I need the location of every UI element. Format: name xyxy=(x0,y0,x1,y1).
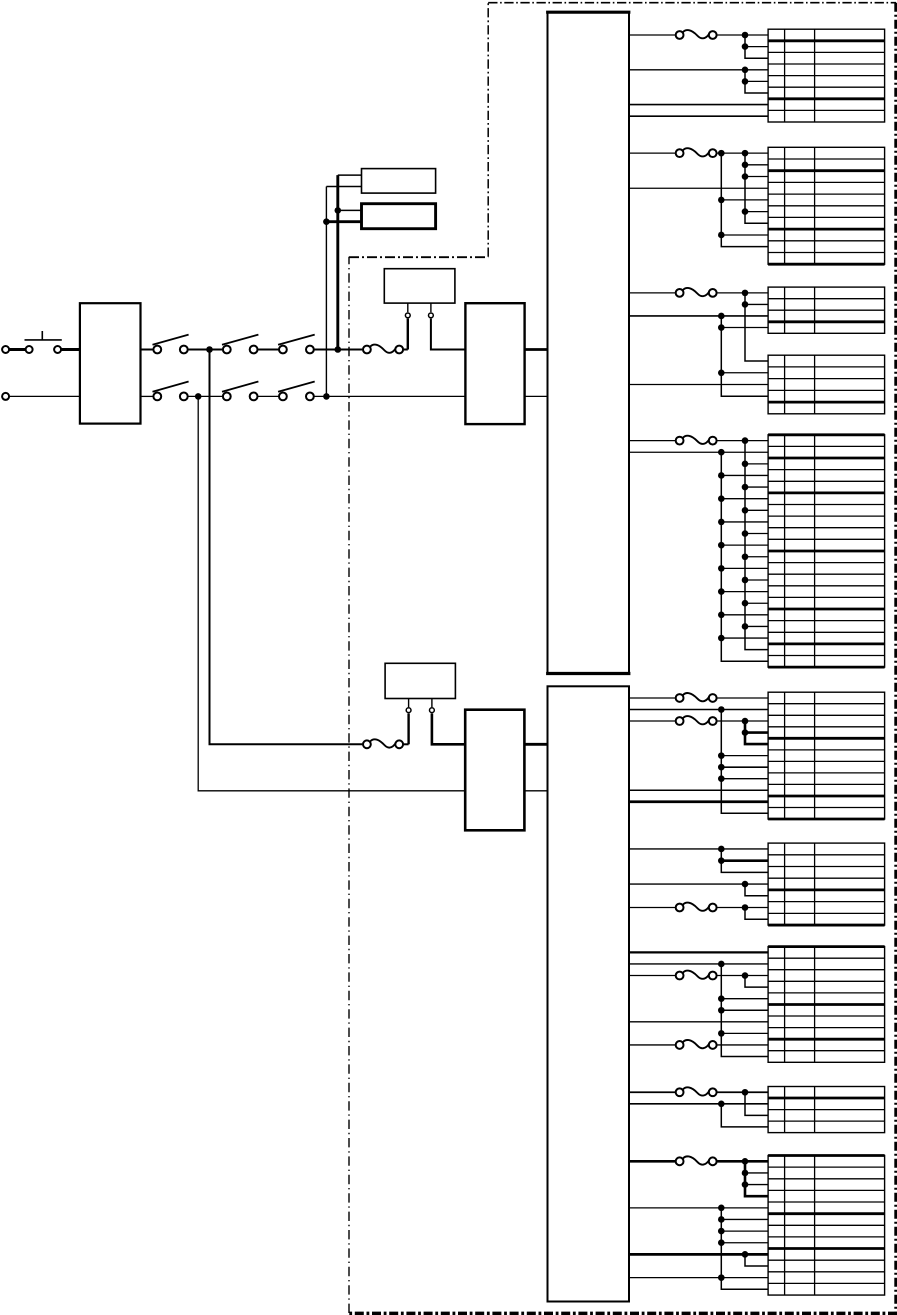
wire xyxy=(721,327,768,329)
contact Q3.1 xyxy=(222,335,258,354)
wire rail xyxy=(745,441,768,650)
wire xyxy=(745,556,768,558)
junction xyxy=(742,78,749,85)
breaker K2 pin 2 xyxy=(430,708,435,713)
node L1a xyxy=(206,346,213,353)
wire rail xyxy=(745,153,768,223)
wire G1 out - xyxy=(525,395,548,397)
junction xyxy=(742,162,749,169)
main switch Q1 xyxy=(80,303,141,423)
wire xyxy=(721,474,768,476)
terminal L in xyxy=(2,346,9,353)
junction xyxy=(742,150,749,157)
wire xyxy=(721,1032,768,1034)
wire xyxy=(721,859,768,862)
contact Q3.2 xyxy=(222,382,258,401)
wire xyxy=(745,1184,768,1186)
node N1b xyxy=(323,393,330,400)
wire xyxy=(407,303,409,312)
junction xyxy=(718,449,725,456)
junction xyxy=(718,1228,725,1235)
wire xyxy=(721,1218,768,1220)
wire rail xyxy=(721,153,768,247)
wire xyxy=(721,637,768,639)
junction xyxy=(742,718,749,725)
wire xyxy=(408,699,410,708)
indicator unit H1 xyxy=(362,169,436,194)
wire to breaker K1 pin 1 xyxy=(407,319,409,350)
wire U2 to F7 xyxy=(629,697,675,699)
wire xyxy=(717,975,768,977)
fuse F13 xyxy=(676,1156,717,1165)
wire rail xyxy=(745,884,768,896)
wire xyxy=(629,883,768,885)
wire xyxy=(629,789,768,791)
junction xyxy=(742,1158,749,1165)
wire xyxy=(338,209,362,211)
wire xyxy=(188,349,222,351)
junction xyxy=(742,43,749,50)
wire xyxy=(629,69,768,71)
wire xyxy=(314,395,465,397)
junction xyxy=(718,565,725,572)
contact Q2.1 xyxy=(153,335,189,354)
junction xyxy=(742,972,749,979)
junction xyxy=(742,1251,749,1258)
pushbutton S0 actuator bar xyxy=(25,339,62,341)
wire rail xyxy=(721,316,768,396)
wire xyxy=(721,1242,768,1244)
wire xyxy=(721,1230,768,1232)
fuse F1 xyxy=(363,345,403,354)
wire rail xyxy=(745,1254,768,1266)
power supply G2 xyxy=(465,710,524,831)
node N1a xyxy=(195,393,202,400)
fuse F4 xyxy=(676,148,717,157)
junction xyxy=(718,1274,725,1281)
wire xyxy=(629,451,768,453)
wire U1 to F4 xyxy=(629,152,675,154)
junction xyxy=(718,857,725,864)
terminal block X6 xyxy=(768,692,885,819)
wire to breaker K2 pin 1 xyxy=(407,714,409,745)
junction xyxy=(718,369,725,376)
junction xyxy=(718,313,725,320)
wire rail xyxy=(745,721,768,744)
wire xyxy=(721,567,768,569)
wire xyxy=(141,395,154,397)
breaker K2 xyxy=(385,663,455,698)
wire xyxy=(431,699,433,708)
wire xyxy=(629,708,768,710)
terminal block X4 xyxy=(768,355,885,414)
wire xyxy=(717,720,768,722)
wire xyxy=(745,303,768,305)
wire xyxy=(629,315,768,317)
junction xyxy=(742,301,749,308)
wire xyxy=(629,951,768,953)
wire U2 to F9 xyxy=(629,907,675,909)
wire rail xyxy=(721,1208,768,1289)
wire xyxy=(404,349,408,351)
wire xyxy=(721,498,768,500)
wire xyxy=(717,152,768,154)
junction xyxy=(742,290,749,297)
enclosure boundary (dash-dot cabinet outline) xyxy=(348,3,897,1314)
contact Q4.2 xyxy=(278,382,315,401)
junction xyxy=(718,1007,725,1014)
junction xyxy=(718,995,725,1002)
wire xyxy=(9,348,25,351)
junction xyxy=(718,1216,725,1223)
fuse F10 xyxy=(676,971,717,980)
wire xyxy=(258,349,279,351)
wire xyxy=(721,521,768,523)
wire xyxy=(629,187,768,189)
wire xyxy=(745,731,768,734)
wire xyxy=(326,220,361,223)
wire rail xyxy=(721,849,768,872)
fuse F2 xyxy=(363,739,403,748)
wire rail xyxy=(745,35,768,58)
junction xyxy=(718,197,725,204)
junction xyxy=(742,1181,749,1188)
wire xyxy=(314,349,362,351)
fuse F6 xyxy=(676,436,717,445)
breaker K1 pin 1 xyxy=(405,313,410,318)
wire xyxy=(717,1044,768,1046)
wire xyxy=(745,625,768,627)
junction xyxy=(742,484,749,491)
wire G2 out - xyxy=(524,790,547,792)
wire xyxy=(721,755,768,757)
wire xyxy=(717,34,768,36)
wire U2 to F10 xyxy=(629,975,675,977)
wire rail xyxy=(745,1092,768,1115)
wire xyxy=(338,174,362,176)
junction xyxy=(742,461,749,468)
wire xyxy=(721,199,768,201)
wire U2 to F12 xyxy=(629,1091,675,1093)
junction xyxy=(718,1205,725,1212)
terminal block X7 xyxy=(768,843,885,925)
wire xyxy=(629,1103,768,1105)
wire xyxy=(745,486,768,488)
wire rail xyxy=(745,293,768,361)
junction xyxy=(742,173,749,180)
fuse F9 xyxy=(676,903,717,912)
wire xyxy=(717,1091,768,1093)
wire riser L to units xyxy=(336,175,339,349)
wire xyxy=(745,509,768,511)
junction xyxy=(718,588,725,595)
wire xyxy=(717,440,768,442)
terminal N in xyxy=(2,393,9,400)
wire xyxy=(745,533,768,535)
wire xyxy=(258,395,279,397)
wire xyxy=(745,164,768,166)
wire U2 to F11 xyxy=(629,1044,675,1046)
terminal block X9 xyxy=(768,1087,885,1133)
wire rail xyxy=(721,452,768,661)
wire xyxy=(10,395,80,397)
wire xyxy=(629,104,768,106)
junction xyxy=(718,324,725,331)
wire xyxy=(721,234,768,236)
junction xyxy=(718,752,725,759)
wire xyxy=(629,1207,768,1209)
wire xyxy=(60,348,80,351)
wire xyxy=(721,544,768,546)
wire xyxy=(721,614,768,616)
wire xyxy=(430,303,432,312)
junction xyxy=(742,530,749,537)
wire xyxy=(629,1253,768,1256)
junction xyxy=(742,623,749,630)
junction xyxy=(718,495,725,502)
wire xyxy=(629,1277,768,1279)
wire xyxy=(745,46,768,48)
terminal block X8 xyxy=(768,947,885,1063)
fuse F5 xyxy=(676,288,717,297)
junction xyxy=(718,232,725,239)
wire xyxy=(717,697,768,699)
junction xyxy=(718,846,725,853)
wire K1 pin2 to PSU G1 xyxy=(431,319,466,350)
breaker K1 xyxy=(384,269,455,303)
pushbutton S0 stem xyxy=(41,331,43,340)
junction xyxy=(742,1170,749,1177)
junction xyxy=(718,961,725,968)
wire riser to G2 xyxy=(198,396,465,790)
wire xyxy=(717,292,768,294)
junction xyxy=(742,600,749,607)
fuse F11 xyxy=(676,1040,717,1049)
junction xyxy=(742,577,749,584)
wire xyxy=(721,372,768,374)
wire xyxy=(629,800,768,803)
junction xyxy=(742,208,749,215)
wire riser to F2 xyxy=(210,350,363,745)
node L1b xyxy=(335,346,342,353)
wire xyxy=(721,591,768,593)
wire xyxy=(629,115,768,117)
junction xyxy=(742,437,749,444)
breaker K2 pin 1 xyxy=(406,708,411,713)
wire xyxy=(721,778,768,780)
wire xyxy=(745,80,768,82)
fuse F7 xyxy=(676,693,717,702)
wire riser N to units xyxy=(325,187,327,397)
junction xyxy=(718,542,725,549)
indicator unit H2 xyxy=(362,204,436,229)
pushbutton S0 left pole xyxy=(26,346,33,353)
junction xyxy=(718,612,725,619)
wire xyxy=(629,1021,768,1023)
junction xyxy=(718,706,725,713)
terminal block X3 xyxy=(768,287,885,333)
wire xyxy=(745,1172,768,1174)
wire xyxy=(721,766,768,768)
wire U1 to F6 xyxy=(629,440,675,442)
wire rail xyxy=(745,1161,768,1196)
pushbutton S0 right pole xyxy=(54,346,61,353)
wire xyxy=(745,579,768,581)
wire xyxy=(404,743,409,745)
junction xyxy=(718,1239,725,1246)
junction xyxy=(742,1089,749,1096)
junction xyxy=(323,218,330,225)
wire U2 to F13 xyxy=(629,1160,675,1163)
wire rail xyxy=(721,1104,768,1127)
wire K2 pin2 to PSU G2 xyxy=(432,714,465,745)
wire xyxy=(721,1009,768,1011)
fuse F3 xyxy=(676,30,717,39)
junction xyxy=(742,553,749,560)
junction xyxy=(718,775,725,782)
wire rail xyxy=(745,70,768,93)
wire rail xyxy=(721,964,768,1057)
terminal block X1 xyxy=(768,29,885,122)
wire xyxy=(745,463,768,465)
fuse F12 xyxy=(676,1087,717,1096)
junction xyxy=(718,635,725,642)
wire G2 out + xyxy=(524,743,547,746)
wire xyxy=(745,211,768,213)
contact Q4.1 xyxy=(278,335,315,354)
junction xyxy=(742,904,749,911)
wire U2 to F8 xyxy=(629,720,675,722)
wire xyxy=(629,963,768,965)
wire U1 to F5 xyxy=(629,292,675,294)
junction xyxy=(742,32,749,39)
wire xyxy=(721,998,768,1000)
PLC module U1 xyxy=(546,12,630,673)
wire xyxy=(188,395,222,397)
wire rail xyxy=(745,976,768,988)
junction xyxy=(742,729,749,736)
junction xyxy=(742,507,749,514)
wire xyxy=(745,176,768,178)
junction xyxy=(742,67,749,74)
wire xyxy=(717,907,768,909)
wire G1 out + xyxy=(525,348,548,351)
junction xyxy=(718,1030,725,1037)
wire rail xyxy=(721,709,768,813)
junction xyxy=(335,207,342,214)
junction xyxy=(718,472,725,479)
wire xyxy=(326,186,361,188)
wire U1 to F3 xyxy=(629,34,675,36)
PLC module U2 xyxy=(548,686,630,1301)
terminal block X5 xyxy=(768,435,885,667)
wire xyxy=(717,1160,768,1163)
fuse F8 xyxy=(676,716,717,725)
junction xyxy=(718,519,725,526)
wire xyxy=(629,384,768,386)
contact Q2.2 xyxy=(153,382,189,401)
junction xyxy=(718,150,725,157)
wire xyxy=(745,602,768,604)
junction xyxy=(718,1101,725,1108)
junction xyxy=(742,881,749,888)
wire xyxy=(141,349,154,351)
terminal block X2 xyxy=(768,147,885,264)
power supply G1 xyxy=(465,303,524,424)
wire xyxy=(629,848,768,850)
breaker K1 pin 2 xyxy=(429,313,434,318)
wire rail xyxy=(745,908,768,920)
junction xyxy=(718,764,725,771)
terminal block X10 xyxy=(768,1156,885,1296)
